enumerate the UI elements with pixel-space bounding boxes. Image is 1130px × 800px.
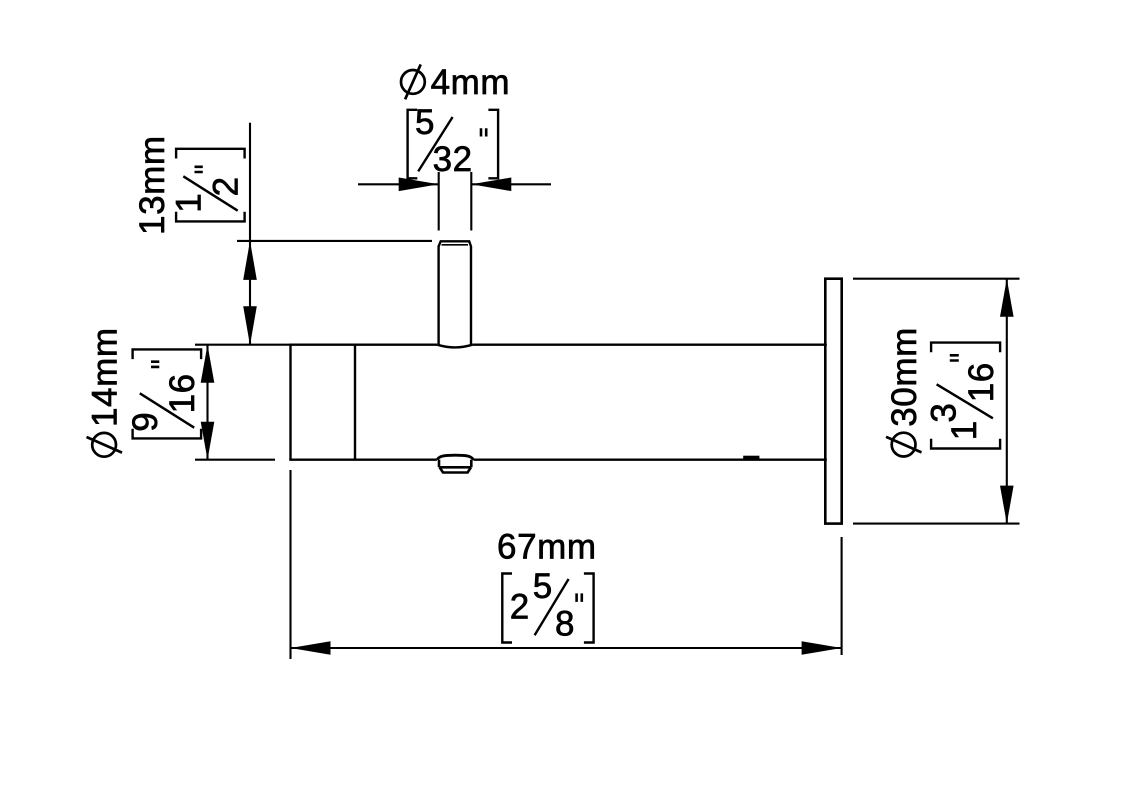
dim Ø4 arrow left xyxy=(399,178,439,192)
svg-text:32: 32 xyxy=(433,140,473,179)
dim Ø14 dimension line xyxy=(206,345,208,460)
svg-text:30mm: 30mm xyxy=(885,327,924,427)
svg-text:4mm: 4mm xyxy=(431,63,511,102)
dim 67mm dimension line xyxy=(291,647,842,649)
dim Ø14 extension lines xyxy=(195,345,291,460)
svg-text:67mm: 67mm xyxy=(497,528,597,567)
svg-text:9: 9 xyxy=(126,412,165,432)
dim Ø14 arrow up xyxy=(201,345,215,383)
svg-text:3: 3 xyxy=(925,403,964,423)
bottom stub xyxy=(437,455,474,472)
dim Ø30 dimension line xyxy=(1006,279,1008,524)
dim 67mm extension lines xyxy=(291,470,842,659)
wall flange plate xyxy=(825,279,841,524)
label fraction 1 3/16 inch xyxy=(925,343,1001,449)
dim 13mm arrow up xyxy=(243,241,257,280)
label fraction 5/32 inch xyxy=(408,103,499,179)
svg-text:5: 5 xyxy=(415,103,435,142)
hook body cylinder outline xyxy=(289,345,827,460)
dim Ø30 arrow down xyxy=(1000,486,1014,524)
pin base fillet arc xyxy=(437,345,472,348)
dim Ø4 dimension line tails xyxy=(358,183,551,185)
body collar line xyxy=(354,345,356,460)
dim Ø30 extension lines xyxy=(853,279,1020,524)
label fraction 1/2 inch xyxy=(170,149,246,222)
dim 67mm arrow left xyxy=(291,641,331,655)
svg-text:13mm: 13mm xyxy=(133,135,172,235)
svg-text:1: 1 xyxy=(170,193,209,213)
svg-text:16: 16 xyxy=(163,373,202,413)
svg-text:14mm: 14mm xyxy=(86,327,125,427)
label Ø30mm xyxy=(885,327,924,456)
svg-text:2: 2 xyxy=(206,176,245,196)
top pin xyxy=(439,241,471,344)
dim 13mm extension line xyxy=(237,240,432,242)
label Ø14mm xyxy=(86,327,125,456)
dim Ø4 extension lines xyxy=(439,172,472,231)
label fraction 2 5/8 inch xyxy=(502,567,593,643)
svg-text:8: 8 xyxy=(555,604,575,643)
dim Ø14 arrow down xyxy=(201,422,215,460)
svg-text:5: 5 xyxy=(533,567,553,606)
dim 67mm arrow right xyxy=(802,641,842,655)
dim Ø30 arrow up xyxy=(1000,279,1014,317)
label 13mm xyxy=(133,135,172,235)
label fraction 9/16 inch xyxy=(126,349,202,438)
svg-text:2: 2 xyxy=(510,587,530,626)
label Ø4mm xyxy=(401,63,510,102)
svg-text:16: 16 xyxy=(962,362,1001,402)
dim 13mm arrow down xyxy=(243,306,257,345)
small dash on body bottom edge xyxy=(743,456,759,460)
dim Ø4 arrow right xyxy=(471,178,511,192)
dim 13mm vertical line xyxy=(249,123,251,345)
